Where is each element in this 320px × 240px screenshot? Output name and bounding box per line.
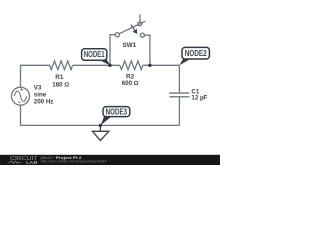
wire: V3 bottom to ground net (21, 105, 180, 125)
junction: ground net dot (99, 124, 102, 127)
node NODE2 flag (179, 47, 209, 65)
svg-text:LAB: LAB (26, 160, 38, 165)
footer bar (0, 155, 220, 165)
svg-text:12 µF: 12 µF (191, 95, 207, 102)
svg-text:NODE1: NODE1 (84, 50, 105, 59)
terminal circles (115, 33, 119, 37)
wire: left throw drop to middle net (110, 35, 117, 66)
svg-text:NODE2: NODE2 (185, 49, 207, 58)
junction: NODE2 net dot (148, 64, 151, 67)
junction: NODE1 net dot (108, 64, 111, 67)
wire: middle horizontal net (V3 top / R1 / R2 / C1 top) (21, 65, 180, 87)
svg-text:600 Ω: 600 Ω (122, 80, 139, 87)
svg-text:R1: R1 (55, 74, 64, 81)
svg-text:http://circuitlab.com/caplcd9a: http://circuitlab.com/caplcd9ae3084 (41, 160, 107, 164)
wire: top stub (139, 14, 141, 21)
ground (92, 125, 108, 140)
node NODE1 flag (82, 49, 111, 66)
svg-text:SW1: SW1 (122, 42, 136, 49)
node NODE3 flag (101, 107, 130, 126)
canvas background (0, 0, 220, 165)
svg-text:NODE3: NODE3 (106, 107, 128, 116)
capacitor C1 (169, 65, 189, 125)
lever (119, 21, 145, 34)
switch SW1 (110, 14, 150, 65)
svg-text:180 Ω: 180 Ω (52, 81, 69, 88)
resistor R1 (50, 61, 73, 70)
svg-text:200 Hz: 200 Hz (34, 98, 54, 105)
wire: right throw drop to middle net (145, 35, 150, 65)
footer logo CIRCUIT LAB (8, 156, 38, 165)
switch arrow (131, 25, 137, 34)
voltage source V3 (12, 87, 30, 105)
resistor R2 (120, 61, 143, 70)
